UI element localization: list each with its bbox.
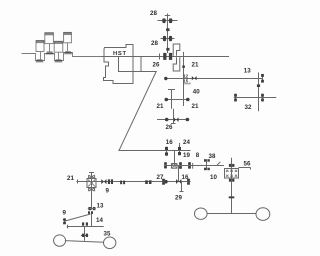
svg-text:13: 13 [97,203,104,210]
svg-text:16: 16 [182,174,189,181]
svg-text:24: 24 [183,139,190,146]
svg-text:10: 10 [210,174,217,181]
svg-text:35: 35 [104,231,111,238]
svg-text:56: 56 [244,161,251,168]
svg-text:29: 29 [175,195,182,202]
svg-text:16: 16 [166,139,173,146]
svg-text:15: 15 [183,79,188,84]
svg-text:14: 14 [96,217,103,224]
svg-text:28: 28 [150,10,157,17]
svg-text:27: 27 [157,174,164,181]
svg-text:9: 9 [63,210,67,217]
svg-text:HST: HST [113,51,127,57]
svg-text:8: 8 [196,152,200,159]
svg-text:19: 19 [183,152,190,159]
svg-text:28: 28 [151,40,158,47]
svg-text:21: 21 [67,175,74,182]
svg-text:12: 12 [183,73,188,78]
svg-text:38: 38 [209,153,216,160]
svg-text:9: 9 [106,188,110,195]
svg-text:21: 21 [192,103,199,110]
svg-text:32: 32 [245,104,252,111]
svg-text:21: 21 [192,62,199,69]
svg-text:13: 13 [244,68,251,75]
svg-text:40: 40 [193,89,200,96]
svg-text:26: 26 [166,124,173,131]
svg-text:21: 21 [157,103,164,110]
svg-text:26: 26 [153,62,160,69]
